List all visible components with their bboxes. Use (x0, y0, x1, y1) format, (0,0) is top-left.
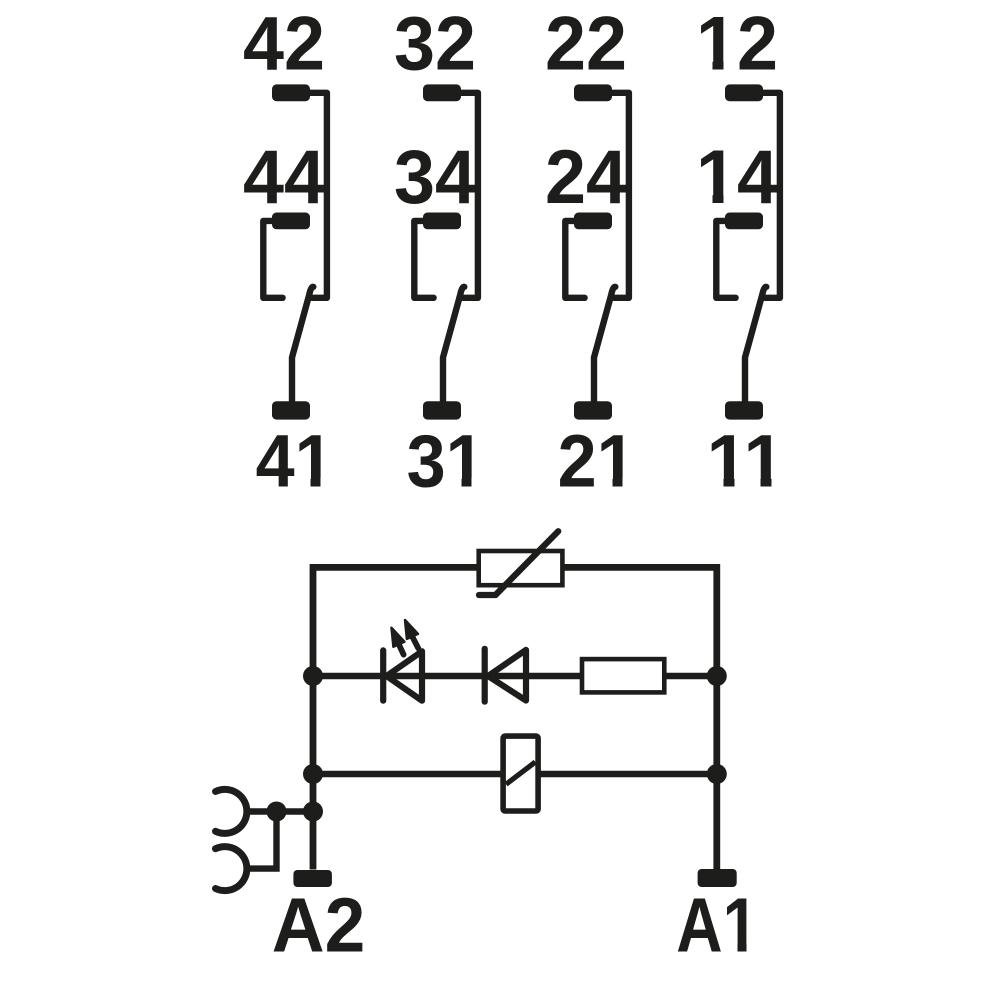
svg-text:22: 22 (545, 2, 627, 87)
svg-text:34: 34 (394, 135, 476, 220)
svg-text:A1: A1 (676, 882, 758, 968)
svg-text:32: 32 (394, 2, 476, 87)
svg-text:21: 21 (558, 419, 636, 502)
svg-text:24: 24 (545, 135, 627, 220)
svg-text:31: 31 (407, 419, 485, 502)
svg-text:14: 14 (696, 135, 778, 220)
svg-text:41: 41 (256, 419, 334, 502)
svg-text:A2: A2 (272, 882, 366, 968)
svg-text:42: 42 (243, 2, 325, 87)
svg-text:44: 44 (243, 135, 325, 220)
svg-text:11: 11 (707, 419, 785, 502)
svg-text:12: 12 (696, 2, 778, 87)
